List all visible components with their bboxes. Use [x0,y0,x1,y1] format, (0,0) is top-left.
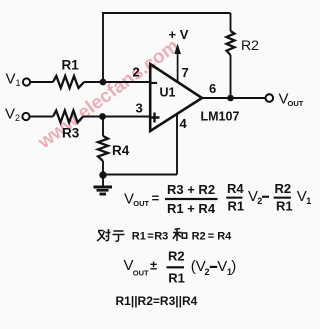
wire node B to R4 [102,117,104,137]
resistor R2 [227,31,235,55]
wire R3 to op-amp pin 3 [83,116,150,118]
svg-text:±: ± [150,257,157,272]
svg-text:R1||R2=R3||R4: R1||R2=R3||R4 [116,294,198,308]
terminal V1 circle [23,78,30,85]
+V supply arrowhead [174,44,181,55]
resistor R4 [98,136,108,161]
svg-text:R2: R2 [168,249,185,264]
chinese character 对 [97,229,111,241]
junction node pin2/R1/feedback [100,79,107,86]
svg-text:R2: R2 [275,181,292,196]
wire V2 to R3 [30,116,53,118]
svg-text:2: 2 [205,267,210,277]
svg-text:R3: R3 [154,231,168,243]
wire R4 to ground node [102,161,104,175]
wire R1 to op-amp pin 2 [84,81,150,83]
svg-text:R1: R1 [228,198,245,213]
junction node output/R2 [227,95,234,102]
svg-text:OUT: OUT [288,99,304,108]
svg-text:): ) [231,258,236,275]
svg-text:+ V: + V [169,27,189,42]
junction node pin3/R3/R4 [99,113,106,120]
formula 4 R1||R2=R3||R4 [116,294,198,308]
svg-text:7: 7 [182,65,189,80]
junction node ground [99,171,106,178]
svg-text:R1: R1 [276,198,293,213]
wire R2 bottom to output node [230,55,232,98]
svg-text:R1: R1 [168,271,185,286]
wire feedback left vertical [102,12,104,82]
resistor R3 [53,111,83,123]
op-amp plus sign pin 3 [150,113,160,123]
svg-text:OUT: OUT [133,268,149,277]
formula 2 condition R2 = R4 [192,231,233,243]
svg-text:R1 + R4: R1 + R4 [167,201,216,216]
wire R2 branch vertical top [230,13,232,31]
svg-text:R3: R3 [62,126,80,141]
svg-text:V: V [217,258,227,275]
formula 2 condition R1 = R3 [132,231,168,243]
terminal VOUT circle [266,94,274,102]
svg-text:=: = [208,231,214,243]
svg-text:R1: R1 [132,231,146,243]
svg-text:=: = [147,231,153,243]
svg-text:2: 2 [133,65,140,80]
resistor R1 [53,76,84,88]
svg-text:R4: R4 [227,181,244,196]
svg-text:R2: R2 [192,231,206,243]
chinese character 于 [113,231,125,241]
wire feedback top horizontal [103,12,231,14]
wire ground stub [102,175,104,186]
svg-text:2: 2 [257,196,262,206]
wire V1 to R1 [30,81,53,83]
wire ground node to pin 4 horizontal [103,174,177,176]
svg-text:1: 1 [306,196,311,206]
chinese character 和 [173,229,187,242]
svg-text:R1: R1 [62,58,80,73]
svg-text:R4: R4 [217,231,232,243]
svg-text:R3 + R2: R3 + R2 [167,182,215,197]
svg-text:4: 4 [180,116,188,131]
wire op-amp pin 4 vertical [176,114,178,175]
svg-text:3: 3 [136,101,143,116]
svg-text:OUT: OUT [133,199,149,208]
svg-text:R2: R2 [241,37,259,53]
svg-text:=: = [152,191,160,206]
terminal V2 circle [22,113,29,120]
svg-text:6: 6 [209,81,216,96]
svg-text:LM107: LM107 [201,110,240,124]
op-amp minus sign pin 2 [152,82,158,84]
wire +V supply to pin 7 [177,52,179,82]
svg-text:R4: R4 [112,143,130,158]
wire op-amp output to VOUT terminal [202,97,265,99]
ground symbol [94,186,113,189]
svg-text:U1: U1 [160,86,176,100]
op-amp U1 triangle [150,64,202,131]
